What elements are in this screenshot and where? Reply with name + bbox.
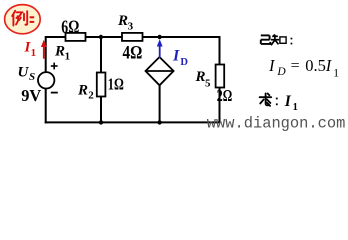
I1 red arrow xyxy=(41,40,47,59)
minus sign xyxy=(51,92,58,94)
svg-text:www.diangon.com: www.diangon.com xyxy=(207,115,346,133)
svg-text:I: I xyxy=(268,56,276,75)
colon after qiu xyxy=(276,98,278,106)
svg-text:1: 1 xyxy=(65,51,71,63)
svg-text:1: 1 xyxy=(333,68,339,80)
svg-text:1: 1 xyxy=(31,47,36,59)
svg-text:1: 1 xyxy=(293,102,298,113)
node junction top-right xyxy=(157,35,161,39)
svg-text:9V: 9V xyxy=(21,86,41,105)
voltage source US circle xyxy=(38,72,54,88)
svg-text:4Ω: 4Ω xyxy=(123,42,143,63)
svg-text:R: R xyxy=(195,69,206,85)
svg-text:I: I xyxy=(172,47,180,64)
wire top xyxy=(46,36,220,38)
ID blue arrow xyxy=(157,39,163,58)
wire bottom xyxy=(45,121,220,123)
wire R2 branch xyxy=(100,37,102,122)
svg-text:R: R xyxy=(77,82,88,98)
svg-text:2Ω: 2Ω xyxy=(217,86,232,105)
svg-text:I: I xyxy=(325,56,333,75)
resistor R1 xyxy=(66,33,86,41)
text qiu (find) hand-drawn xyxy=(260,93,272,106)
wire left lower xyxy=(45,88,47,123)
colon after yizhi xyxy=(291,38,293,45)
svg-text:=: = xyxy=(291,58,300,75)
controlled source ID diamond xyxy=(146,57,174,85)
wire dependent source branch xyxy=(159,84,161,122)
svg-text:R: R xyxy=(117,13,128,29)
svg-text:I: I xyxy=(284,93,292,110)
plus sign xyxy=(51,63,58,70)
svg-text:0.5: 0.5 xyxy=(305,56,326,75)
resistor R2 xyxy=(97,73,106,97)
svg-text:D: D xyxy=(276,66,286,78)
svg-text:5: 5 xyxy=(205,78,211,90)
svg-text:U: U xyxy=(18,64,30,80)
badge colon xyxy=(30,16,35,23)
wire right xyxy=(219,36,221,123)
badge ellipse xyxy=(5,5,41,34)
badge character 例 xyxy=(12,11,27,26)
resistor R5 xyxy=(216,65,225,88)
resistor R3 xyxy=(122,33,143,41)
svg-text:S: S xyxy=(29,71,35,83)
svg-text:2: 2 xyxy=(88,90,94,102)
svg-text:6Ω: 6Ω xyxy=(61,17,79,38)
svg-text:3: 3 xyxy=(128,20,134,32)
text yizhi (known) hand-drawn xyxy=(261,35,271,44)
svg-text:D: D xyxy=(180,57,188,68)
svg-text:1Ω: 1Ω xyxy=(108,75,124,94)
wire left xyxy=(45,36,47,72)
node junction bottom-left xyxy=(99,120,103,124)
zhi of yizhi xyxy=(271,34,286,45)
node junction bottom-right xyxy=(157,120,161,124)
svg-text:R: R xyxy=(54,44,65,60)
node junction top-left xyxy=(99,35,103,39)
